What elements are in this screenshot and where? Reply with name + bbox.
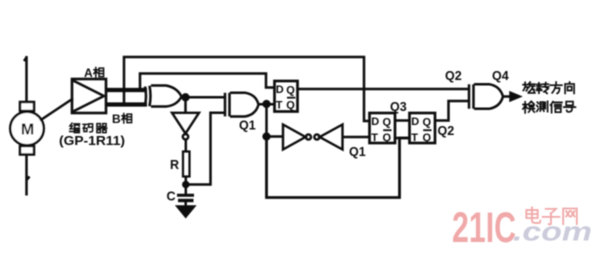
wire XOR out down to inverter [184, 97, 187, 113]
flip-flop Q3 [370, 113, 396, 143]
svg-text:Q1: Q1 [239, 119, 256, 133]
node bowtie input junction [264, 134, 270, 140]
svg-text:R: R [170, 158, 179, 172]
wire Q1 out down to bowtie node [265, 104, 268, 137]
wire XOR out to Q1 gate upper input [182, 96, 226, 99]
wire bottom feedback loop [267, 137, 410, 198]
flip-flop FF1 [275, 81, 298, 112]
svg-text:Q: Q [423, 116, 432, 128]
wire left rail top [24, 56, 27, 102]
flip-flop Q2 pin labels [411, 116, 431, 144]
AND gate Q1 [225, 93, 259, 117]
wire motor shaft to encoder [40, 99, 73, 121]
svg-text:A: A [84, 66, 93, 80]
svg-text:.com: .com [513, 217, 592, 247]
label B-phase [112, 112, 132, 126]
svg-text:Q: Q [286, 100, 295, 112]
svg-text:Q2: Q2 [445, 69, 462, 83]
svg-text:(GP-1R11): (GP-1R11) [59, 133, 125, 148]
resistor R [183, 152, 190, 177]
wire A-phase encoder to gate [106, 88, 147, 92]
svg-text:Q: Q [383, 116, 392, 128]
wire left rail bottom [27, 155, 30, 196]
AND gate Q4 [469, 84, 503, 109]
wire A-phase tap to FF1 D input [140, 74, 275, 91]
svg-text:Q: Q [423, 132, 432, 144]
svg-text:C: C [167, 190, 176, 204]
svg-text:D: D [411, 116, 419, 128]
wire Q1 out to FF1 clock [259, 103, 276, 106]
svg-text:Q2: Q2 [438, 124, 455, 138]
label A-phase [84, 66, 104, 80]
inverter U2 [172, 113, 199, 140]
svg-text:T: T [276, 99, 283, 111]
svg-text:D: D [371, 116, 379, 128]
svg-text:D: D [276, 84, 284, 96]
ground [184, 202, 187, 208]
svg-text:T: T [411, 132, 418, 144]
wire Q4 output [503, 95, 511, 98]
svg-text:21IC: 21IC [452, 204, 516, 252]
wire Q3 Q to Q2 D [395, 119, 410, 122]
svg-text:M: M [21, 122, 34, 139]
svg-text:T: T [371, 132, 378, 144]
buffer bowtie right triangle [314, 125, 342, 150]
wire B-phase tap up and along top to Q3 D input [124, 57, 370, 121]
wire RC junction to Q1 gate lower input [186, 113, 225, 185]
encoder GP-1R11 [72, 79, 106, 113]
label encoder [70, 123, 107, 132]
buffer bowtie left triangle [283, 125, 311, 150]
wire Q2 Q up to Q4 gate lower input [435, 101, 469, 121]
wire resistor to capacitor [185, 177, 188, 195]
label output signal line1 [523, 82, 574, 93]
node Q1 gate output junction [264, 101, 270, 107]
svg-text:Q4: Q4 [492, 69, 509, 83]
svg-text:B: B [112, 112, 121, 126]
watermark dianziwang [526, 207, 577, 224]
wire FF1 Q output long wire to Q4 gate [298, 88, 470, 91]
wire B-phase encoder to gate [106, 102, 147, 106]
label output signal line2 [523, 101, 576, 113]
flip-flop Q2 [410, 113, 436, 143]
flip-flop Q3 pin labels [371, 116, 391, 144]
capacitor C [177, 194, 194, 197]
wire junction to bowtie [267, 135, 284, 138]
wire bowtie to Q3 clock [343, 136, 371, 139]
output arrow [511, 93, 520, 100]
svg-text:Q1: Q1 [349, 145, 366, 159]
svg-text:Q3: Q3 [390, 100, 407, 114]
wire Q3 Qbar row to Q2 clock [395, 137, 410, 140]
svg-text:Q: Q [383, 132, 392, 144]
XOR gate G1 [145, 86, 182, 107]
node XOR output junction [183, 94, 189, 100]
svg-text:Q: Q [286, 84, 295, 96]
motor M1 [10, 102, 44, 155]
flip-flop FF1 pin labels [276, 84, 296, 112]
node RC junction [183, 182, 188, 187]
wire inverter to resistor [185, 140, 188, 152]
